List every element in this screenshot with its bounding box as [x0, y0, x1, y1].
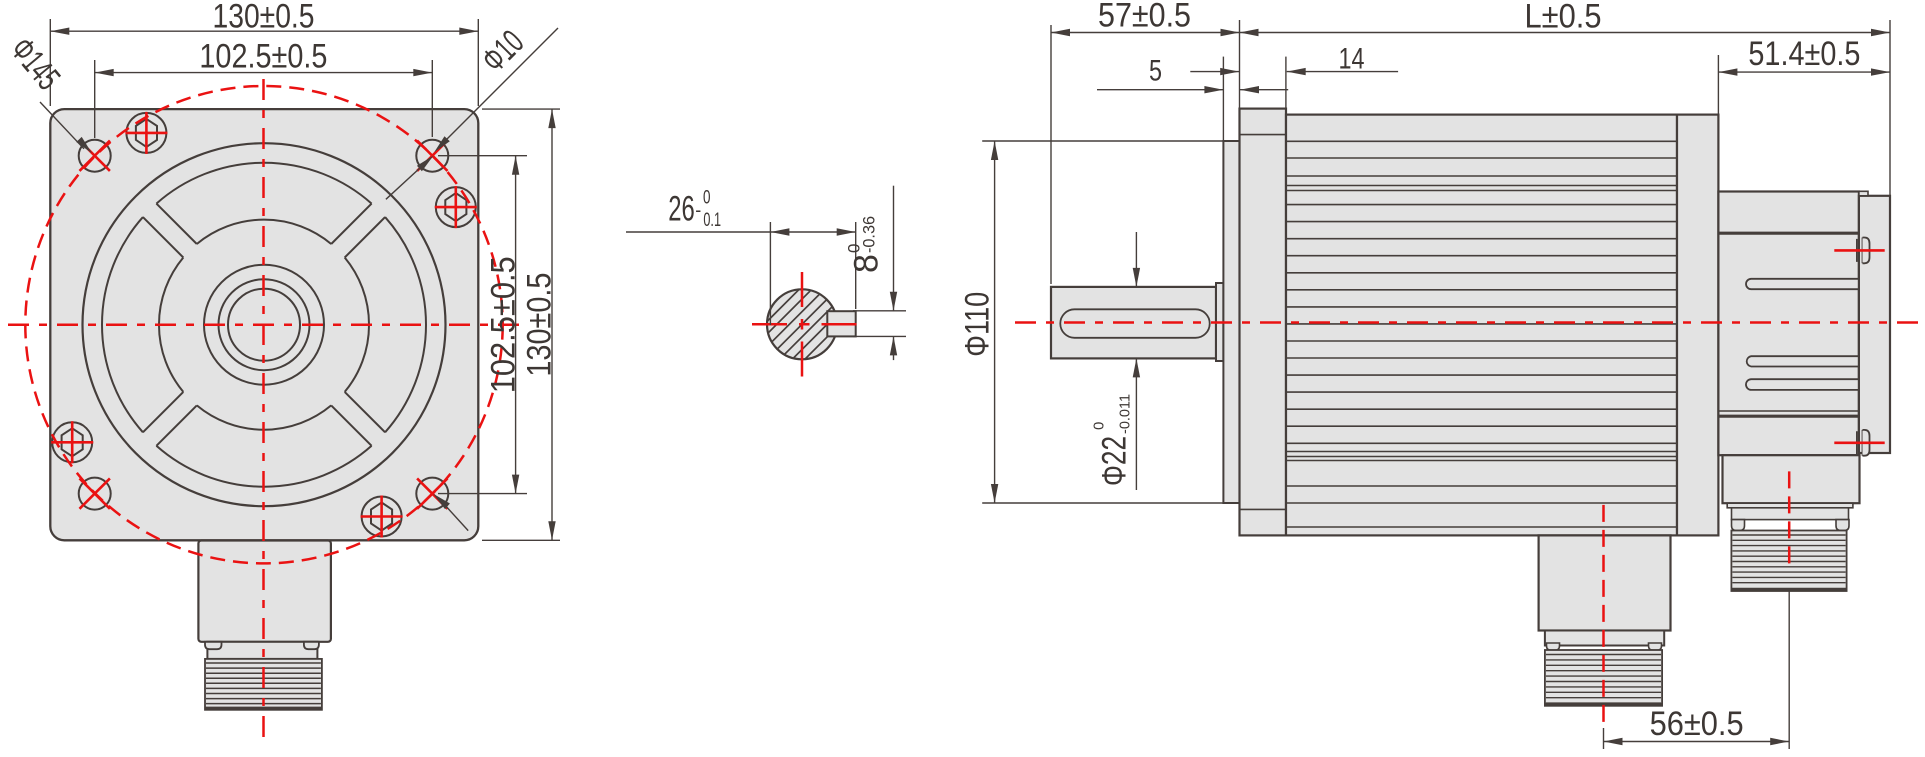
svg-text:-: - — [695, 201, 701, 222]
svg-text:L±0.5: L±0.5 — [1525, 0, 1602, 36]
svg-text:56±0.5: 56±0.5 — [1650, 705, 1744, 743]
svg-text:Φ110: Φ110 — [959, 292, 997, 357]
svg-text:8: 8 — [848, 254, 886, 273]
svg-text:130±0.5: 130±0.5 — [213, 0, 315, 36]
svg-text:14: 14 — [1339, 43, 1365, 76]
svg-text:102.5±0.5: 102.5±0.5 — [199, 38, 327, 76]
svg-text:Φ22: Φ22 — [1096, 436, 1134, 486]
svg-text:51.4±0.5: 51.4±0.5 — [1748, 35, 1860, 73]
svg-text:-0.011: -0.011 — [1117, 394, 1134, 434]
svg-text:26: 26 — [668, 190, 695, 229]
svg-text:-0.36: -0.36 — [860, 216, 879, 253]
svg-text:130±0.5: 130±0.5 — [521, 273, 559, 377]
svg-text:57±0.5: 57±0.5 — [1098, 0, 1191, 35]
svg-text:5: 5 — [1149, 55, 1162, 88]
svg-text:0.1: 0.1 — [703, 210, 721, 231]
svg-text:102.5±0.5: 102.5±0.5 — [485, 256, 523, 393]
svg-text:0: 0 — [1091, 422, 1108, 430]
svg-text:0: 0 — [703, 188, 711, 209]
